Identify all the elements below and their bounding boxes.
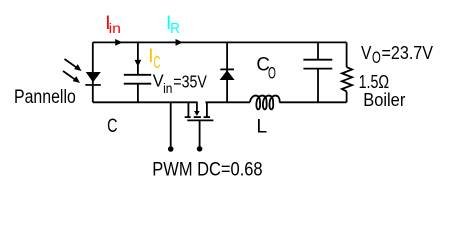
svg-text:Pannello: Pannello [14, 87, 76, 108]
svg-text:R: R [170, 21, 180, 37]
svg-text:O: O [372, 48, 381, 67]
svg-text:=23.7V: =23.7V [382, 42, 434, 63]
svg-text:L: L [256, 117, 267, 138]
svg-text:in: in [163, 81, 172, 96]
svg-text:=35V: =35V [173, 72, 207, 92]
svg-text:C: C [107, 116, 117, 137]
svg-text:PWM DC=0.68: PWM DC=0.68 [152, 159, 262, 181]
svg-text:O: O [268, 64, 276, 83]
svg-text:in: in [109, 21, 121, 36]
svg-text:Boiler: Boiler [363, 89, 405, 110]
svg-text:V: V [361, 42, 372, 63]
svg-text:C: C [153, 52, 160, 72]
